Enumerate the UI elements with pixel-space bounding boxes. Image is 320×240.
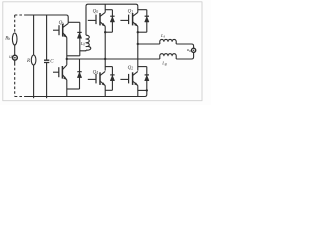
- wire: battery lower solid stub: [14, 60, 16, 63]
- wire: Qb emitter vertical: [66, 37, 68, 65]
- wire: coil bottom staircase: [80, 49, 86, 52]
- transistor Qb2 lower: [53, 65, 67, 80]
- wire: Q0 collector: [104, 4, 106, 12]
- node: right leg output junction: [137, 43, 139, 45]
- node: left leg output junction: [104, 58, 106, 60]
- wire: Q4 diode bottom jog: [105, 89, 112, 91]
- wire: Qb2 diode bottom jog: [67, 88, 80, 90]
- diode Db1: [77, 22, 81, 56]
- wire: source to bottom line: [176, 52, 193, 59]
- wire: dashed battery vertical lower: [14, 63, 16, 97]
- wire: Q1 diode bottom jog: [138, 31, 147, 33]
- resistor R: [31, 55, 36, 65]
- transistor Q2: [120, 71, 137, 85]
- inductor Lg: [160, 54, 176, 59]
- wire: Q1 diode top jog: [138, 9, 147, 11]
- wire: C branch lower: [46, 63, 48, 98]
- wire: output line top: [138, 43, 160, 45]
- wire: R branch upper: [33, 15, 35, 55]
- svg-text:R: R: [26, 59, 30, 64]
- wire: output line bottom: [67, 58, 160, 60]
- capacitor C: [44, 60, 49, 62]
- wire: C branch upper: [46, 15, 48, 60]
- svg-text:Lb: Lb: [80, 41, 86, 47]
- wire: output top to source: [176, 44, 193, 48]
- wire: top bus left section: [25, 15, 69, 17]
- wire: Q4 emitter to bus: [104, 86, 106, 97]
- inductor Ls: [160, 39, 176, 44]
- node: boost midpoint junction: [66, 58, 68, 60]
- wire: H-bridge top bus: [86, 4, 138, 6]
- svg-text:Qb: Qb: [59, 21, 65, 26]
- diode D1: [145, 10, 149, 33]
- wire: Q0 diode top jog: [105, 9, 112, 11]
- wire: dashed battery top lead: [15, 14, 25, 16]
- diode D2: [145, 67, 149, 95]
- source ub: [13, 55, 18, 60]
- wire: Q2 emitter to bus: [137, 86, 139, 97]
- svg-text:C: C: [50, 59, 54, 64]
- transistor Qb: [53, 23, 68, 37]
- wire: Q4 diode top jog: [105, 66, 112, 68]
- transistor Q1: [120, 12, 137, 26]
- wire: left leg mid vertical: [104, 26, 106, 70]
- wire: R branch lower: [33, 65, 35, 98]
- resistor Rb: [12, 33, 17, 45]
- svg-text:Q1: Q1: [128, 10, 134, 15]
- svg-text:Q0: Q0: [93, 10, 99, 15]
- source ua: [192, 48, 196, 52]
- wire: bottom bus: [25, 95, 147, 97]
- svg-text:Q4: Q4: [93, 71, 99, 76]
- wire: right leg mid vertical: [137, 26, 139, 70]
- diode D0: [110, 10, 114, 33]
- svg-text:ua: ua: [187, 47, 191, 53]
- diode Db2: [77, 59, 81, 89]
- node: D2 junction: [146, 89, 148, 91]
- svg-text:ub: ub: [9, 55, 14, 60]
- wire: Q1 collector: [137, 6, 139, 12]
- wire: dashed battery vertical upper: [14, 15, 16, 33]
- diode D4: [110, 67, 114, 91]
- wire: dashed battery bottom lead: [15, 96, 25, 98]
- wire: Qb2 emitter to bus: [66, 80, 68, 97]
- border frame (decorative): [3, 2, 202, 101]
- wire: Q2 diode bottom jog: [138, 89, 147, 91]
- wire: Qb collector vertical: [67, 17, 69, 23]
- wire: battery mid solid: [14, 45, 16, 55]
- node: Q0 diode bottom junction: [104, 31, 106, 33]
- inductor Lb: [86, 6, 91, 50]
- node: Q1 diode bottom junction: [137, 31, 139, 33]
- wire: Q2 diode top jog: [138, 66, 147, 68]
- transistor Q4: [88, 71, 105, 85]
- wire: Q0 diode bottom jog: [105, 31, 112, 33]
- svg-text:Ls: Ls: [160, 33, 166, 39]
- transistor Q0: [88, 12, 105, 26]
- svg-text:Rb: Rb: [4, 37, 10, 42]
- wire: Qb diode top jog: [68, 21, 80, 23]
- svg-text:Q2: Q2: [128, 66, 134, 71]
- svg-text:Lg: Lg: [161, 61, 167, 67]
